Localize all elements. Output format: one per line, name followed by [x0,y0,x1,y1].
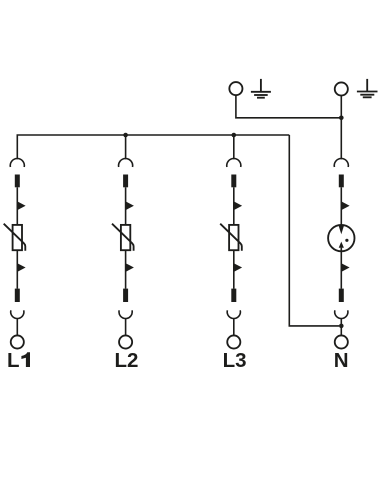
terminal PE (left) [229,82,242,95]
wire: left PE link [236,95,341,118]
ground (left PE) [251,79,271,98]
disconnect indicator arrow (lower, L2 branch) [126,263,134,272]
thermal disconnect bar (lower, L1 branch) [15,289,20,302]
varistor (L1 branch) [4,224,26,251]
svg-text:L3: L3 [223,349,247,372]
varistor (L3 branch) [220,224,242,251]
plug contact (upper, L3 branch) [227,159,241,167]
terminal PE (right) [335,82,348,95]
disconnect indicator arrow (lower, L3 branch) [234,263,242,272]
junction: L2 tap on bus [123,133,128,138]
disconnect indicator arrow (upper, L2 branch) [126,201,134,210]
junction: N terminal node [339,324,344,329]
wire: upper lead L1 branch [16,187,18,225]
plug contact (lower, L2 branch) [119,310,132,318]
plug contact (lower, L1 branch) [11,310,24,318]
junction: PE link joins N riser [339,116,344,121]
disconnect indicator arrow (upper, L3 branch) [234,201,242,210]
wire: upper lead L3 branch [233,187,235,225]
svg-text:N: N [334,349,349,372]
thermal disconnect bar (upper, L2 branch) [123,175,128,188]
plug contact (lower, N branch) [335,310,348,318]
thermal disconnect bar (lower, L2 branch) [123,289,128,302]
wire: upper lead N branch [340,187,342,226]
thermal disconnect bar (upper, N branch) [339,175,344,188]
varistor (L2 branch) [112,224,134,251]
svg-text:L: L [7,349,20,372]
junction: L3 tap on bus [232,133,237,138]
wire: L3 terminal lead [233,319,235,336]
wire: lower lead L1 branch [16,250,18,288]
disconnect indicator arrow (upper, L1 branch) [17,201,25,210]
wire: lower lead L3 branch [233,250,235,288]
plug contact (upper, L2 branch) [119,159,133,167]
ground (right PE) [357,79,378,97]
spark gap / gas discharge tube (N branch) [328,225,354,251]
wire: L1 terminal lead [16,319,18,336]
wire: L3 riser [233,135,235,159]
wire: upper lead L2 branch [125,187,127,225]
wire: L2 riser [125,135,127,159]
wire: PE riser to N branch [340,96,342,160]
disconnect indicator arrow (lower, L1 branch) [17,263,25,272]
disconnect indicator arrow (lower, N branch) [341,263,349,272]
wire: bus drop to N reference point [289,135,339,326]
thermal disconnect bar (upper, L3 branch) [231,175,236,188]
wire: L2 terminal lead [125,319,127,336]
wire: L1 riser and phase bus [17,135,289,159]
thermal disconnect bar (lower, L3 branch) [231,289,236,302]
terminal L3 [227,335,240,348]
plug contact (lower, L3 branch) [227,310,240,318]
wire: lower lead N branch [340,248,342,289]
disconnect indicator arrow (upper, N branch) [341,201,349,210]
wire: N terminal lead [340,319,342,336]
thermal disconnect bar (upper, L1 branch) [15,175,20,188]
node L1 label [7,349,30,372]
terminal L1 [11,335,24,348]
plug contact (upper, L1 branch) [10,159,24,167]
plug contact (upper, N branch) [334,159,348,167]
terminal N [335,335,348,348]
thermal disconnect bar (lower, N branch) [339,289,344,302]
svg-text:L2: L2 [115,349,139,372]
wire: lower lead L2 branch [125,250,127,288]
terminal L2 [119,335,132,348]
